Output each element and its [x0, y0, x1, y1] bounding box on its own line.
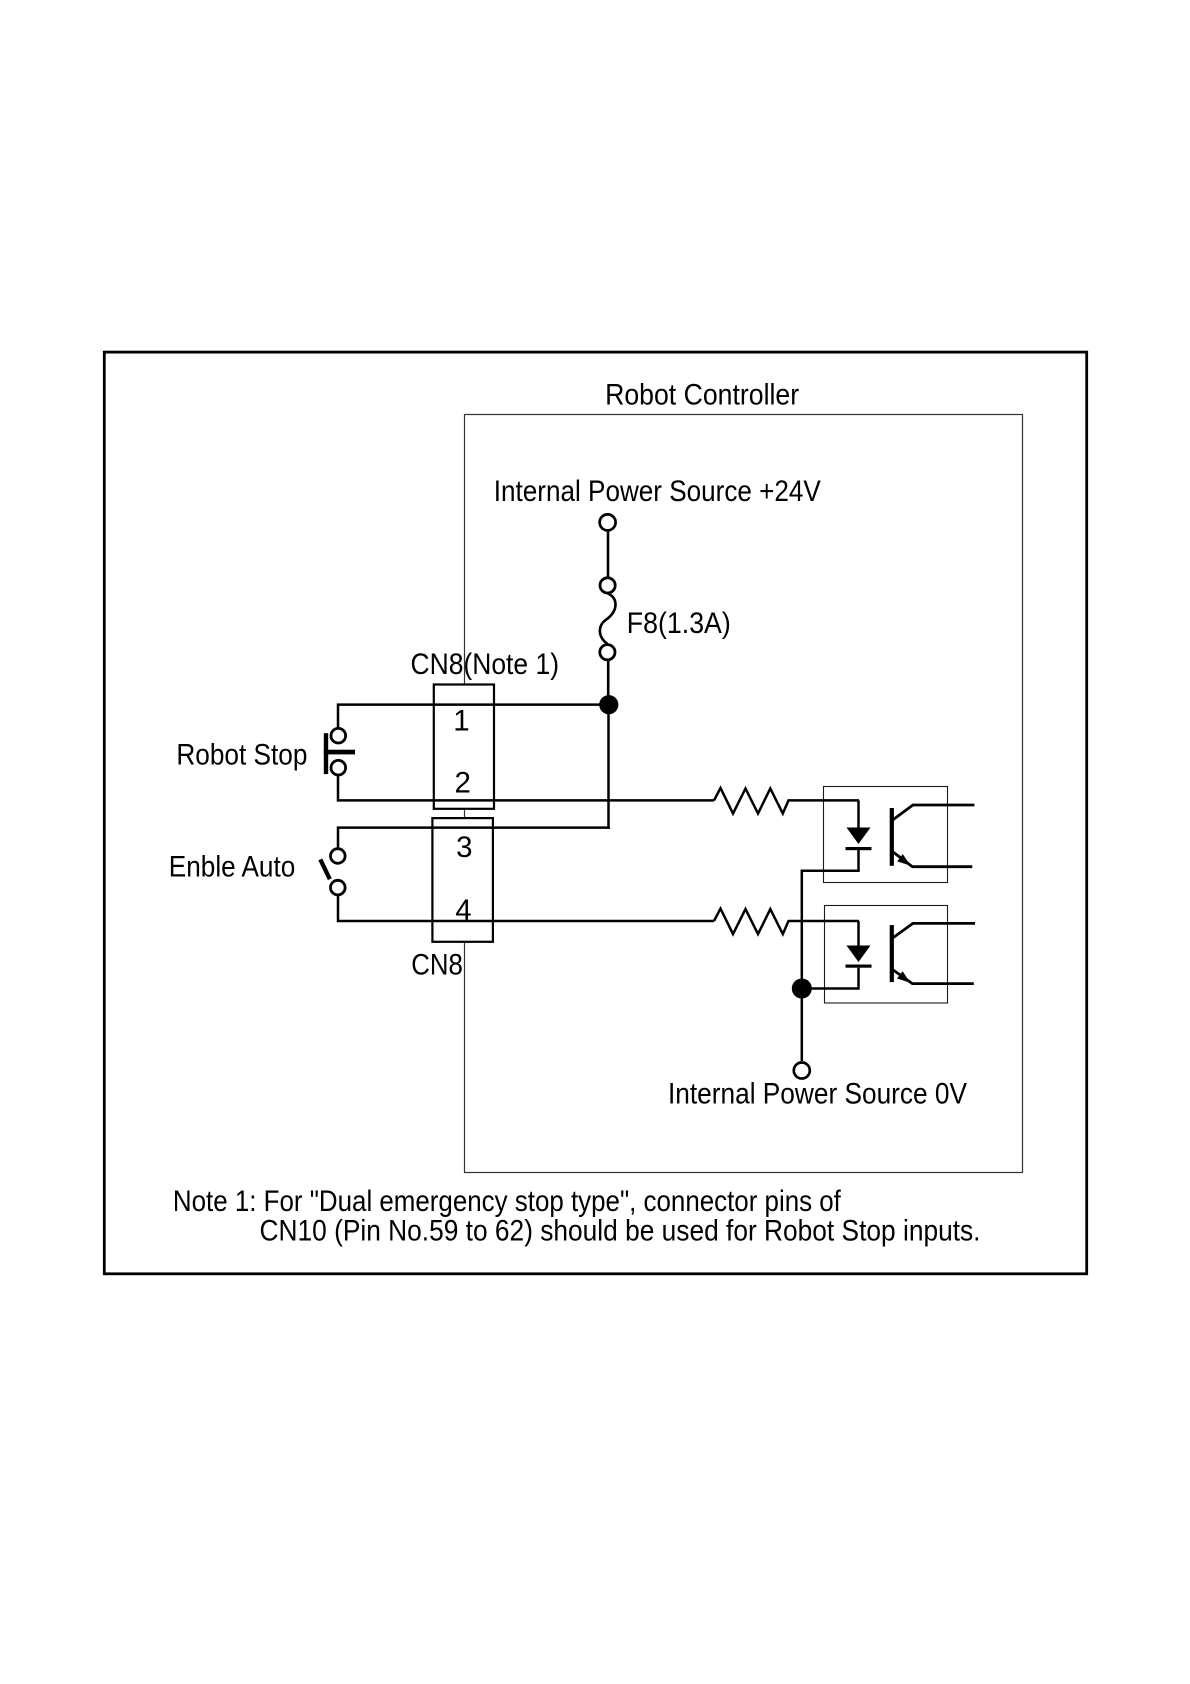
optocoupler U1 box	[824, 787, 948, 883]
wire: pin 3 to switch	[338, 828, 610, 849]
node B (junction dot)	[792, 979, 812, 999]
svg-text:1: 1	[453, 704, 469, 737]
svg-text:Robot Stop: Robot Stop	[176, 739, 307, 772]
enclosure box: Robot Controller	[465, 415, 1023, 1173]
svg-text:CN10 (Pin No.59 to 62) should: CN10 (Pin No.59 to 62) should be used fo…	[260, 1215, 981, 1248]
svg-text:Note 1: For "Dual emergency st: Note 1: For "Dual emergency stop type", …	[173, 1185, 842, 1218]
resistor R2	[714, 909, 859, 935]
wire: switch to pin 4	[338, 895, 714, 922]
pushbutton switch: Robot Stop (NC)	[331, 728, 346, 743]
terminal: +24V	[600, 514, 616, 530]
terminal: 0V	[794, 1063, 810, 1079]
connector CN8 box (pins 1-2)	[434, 685, 494, 809]
resistor R1	[714, 788, 859, 814]
wire: switch to pin 2	[338, 776, 714, 801]
wire: R1 to diode D1 anode	[857, 800, 860, 828]
svg-text:3: 3	[456, 831, 472, 864]
wire: D2 cathode to node B	[802, 968, 859, 989]
phototransistor Q1 (optocoupler U1)	[890, 808, 894, 866]
LED D2 (optocoupler U2)	[847, 946, 871, 963]
wire: R2 to diode D2 anode	[857, 921, 860, 947]
LED D1 (optocoupler U1)	[847, 828, 871, 845]
svg-text:F8(1.3A): F8(1.3A)	[627, 607, 731, 640]
wire: +24V rail down to pin 3 wire	[607, 705, 610, 829]
switch: Enble Auto	[331, 849, 346, 864]
wire: pin 1 to node A	[338, 705, 609, 729]
wire: D1 cathode return	[802, 850, 859, 989]
svg-text:Robot Controller: Robot Controller	[605, 378, 799, 411]
optocoupler U2 box	[825, 906, 948, 1004]
svg-text:Internal Power Source +24V: Internal Power Source +24V	[494, 475, 821, 508]
wire: node B to 0V terminal	[801, 989, 804, 1062]
node A (junction dot)	[599, 695, 618, 714]
wire: +24V terminal down to fuse	[607, 530, 610, 578]
svg-text:Enble Auto: Enble Auto	[169, 850, 295, 883]
fuse F8	[600, 578, 615, 593]
svg-text:CN8: CN8	[411, 948, 463, 981]
svg-text:CN8(Note 1): CN8(Note 1)	[411, 648, 560, 681]
svg-text:Internal Power Source 0V: Internal Power Source 0V	[668, 1078, 967, 1111]
connector CN8 box (pins 3-4)	[432, 818, 493, 942]
phototransistor Q2 (optocoupler U2)	[890, 925, 894, 982]
wire: fuse to node A	[607, 660, 610, 705]
svg-text:2: 2	[454, 766, 470, 799]
